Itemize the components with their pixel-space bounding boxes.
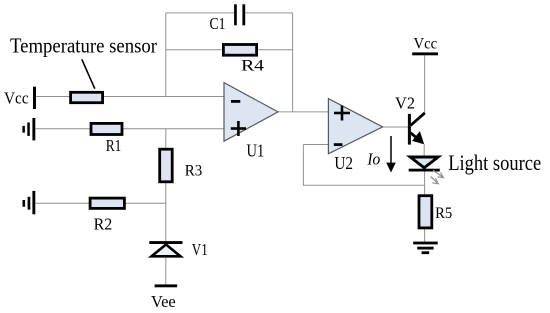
emitter arrowhead (412, 131, 424, 144)
U2 plus symbol (334, 106, 350, 121)
svg-text:Vcc: Vcc (4, 89, 29, 108)
svg-text:U1: U1 (247, 141, 265, 161)
svg-text:U2: U2 (334, 153, 353, 173)
wire: R2 row (gnd to R2 to node) (35, 202, 90, 204)
wire: R5 to ground (424, 228, 426, 242)
wire: Vcc down to V2 collector (424, 55, 426, 113)
U1 plus symbol (231, 121, 246, 136)
Vcc right terminal bar (412, 52, 438, 55)
resistor R1 (91, 123, 122, 134)
wire: U2 output to V2 base (383, 126, 408, 128)
wire: plus-node vertical down to R3 (165, 129, 167, 150)
svg-text:R4: R4 (241, 58, 264, 75)
wire: R3 bottom to V1 top (165, 181, 167, 241)
svg-text:Io: Io (366, 150, 380, 169)
transistor V2 (408, 113, 425, 145)
svg-text:Vcc: Vcc (414, 35, 438, 52)
LED emission arrows (431, 170, 444, 183)
svg-text:R3: R3 (185, 162, 203, 179)
wire: R4 right (256, 49, 293, 51)
svg-text:Vee: Vee (151, 292, 176, 311)
svg-text:R1: R1 (106, 136, 122, 155)
collector line (411, 113, 425, 126)
wire: feedback right vertical to U1 output node (292, 13, 294, 112)
wire: U2 feedback down and right to R5 top node (303, 145, 424, 186)
U2 minus symbol (334, 143, 343, 146)
wire: U1 output to U2 plus input (278, 111, 329, 113)
wire: R4 left (166, 49, 224, 51)
capacitor C1 plates (234, 4, 237, 25)
base bar (408, 114, 411, 145)
Vee terminal bar (155, 284, 178, 287)
wire: LED to R5 (424, 171, 426, 196)
zener diode V1 (149, 241, 182, 256)
resistor R3 (vertical) (160, 149, 173, 182)
ground symbol 3 (below R5) (413, 242, 438, 255)
resistor R5 (vertical) (419, 196, 432, 228)
wire: V1 bottom to Vee (165, 257, 167, 285)
ground symbol 1 (left, R1 row) (22, 118, 35, 140)
svg-text:R5: R5 (435, 205, 452, 222)
svg-text:Light source: Light source (448, 150, 541, 175)
ground symbol 2 (left, R2 row) (23, 191, 36, 214)
svg-text:Temperature sensor: Temperature sensor (10, 33, 157, 57)
wire: feedback left vertical (165, 13, 167, 97)
svg-text:C1: C1 (210, 14, 226, 33)
emitter line (411, 133, 423, 143)
svg-text:V2: V2 (395, 93, 415, 112)
U1 minus symbol (231, 100, 240, 103)
svg-text:R2: R2 (94, 215, 113, 234)
Io arrow (390, 136, 392, 164)
resistor R2 (90, 198, 124, 208)
Vcc left terminal bar (33, 87, 36, 109)
wire: V2 emitter down to LED (423, 144, 425, 157)
temperature sensor resistor (71, 92, 103, 102)
op-amp U2 (328, 99, 382, 154)
resistor R4 (223, 45, 256, 56)
op-amp U1 (224, 83, 278, 142)
LED (light source diode) (409, 157, 440, 172)
svg-text:V1: V1 (192, 240, 208, 259)
wire: R1 row (gnd to R1 to U1 plus input) (36, 128, 92, 130)
wire: sensor row (Vcc to sensor to U1 minus input) (36, 96, 72, 98)
wire: C1 top-left horizontal (166, 12, 235, 14)
wire: U2 minus input (303, 144, 328, 146)
wire: C1 top-right horizontal (245, 12, 293, 14)
pointer line from label to sensor (82, 59, 95, 88)
